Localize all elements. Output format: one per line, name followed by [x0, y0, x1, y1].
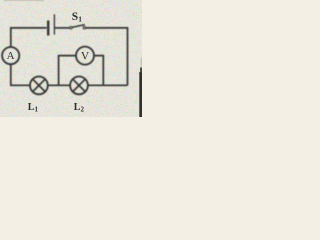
switch S1 blade [72, 25, 85, 28]
battery long plate (positive) [53, 14, 55, 34]
voltmeter V body [76, 47, 94, 65]
voltmeter branch left wire [59, 56, 76, 86]
wire bottom-left segment [11, 64, 30, 85]
voltmeter branch right wire [94, 56, 103, 86]
lamp L2 [70, 77, 88, 95]
svg-text:A: A [7, 50, 15, 62]
ammeter A body [2, 47, 19, 64]
wire switch to top-right corner and down [86, 28, 128, 85]
dark scan band right edge [139, 72, 142, 117]
svg-text:V: V [81, 51, 90, 63]
switch S1 contact [83, 27, 85, 29]
switch S1 pivot [70, 27, 72, 29]
wire between lamps [48, 84, 70, 86]
battery short plate (negative) [47, 21, 49, 36]
wire bottom-right segment [88, 84, 128, 86]
wire battery to switch [54, 27, 69, 29]
wire top-left segment [11, 28, 47, 47]
faint top edge smudge [4, 0, 44, 1]
lamp L1 [30, 77, 48, 95]
paper background [0, 0, 142, 117]
